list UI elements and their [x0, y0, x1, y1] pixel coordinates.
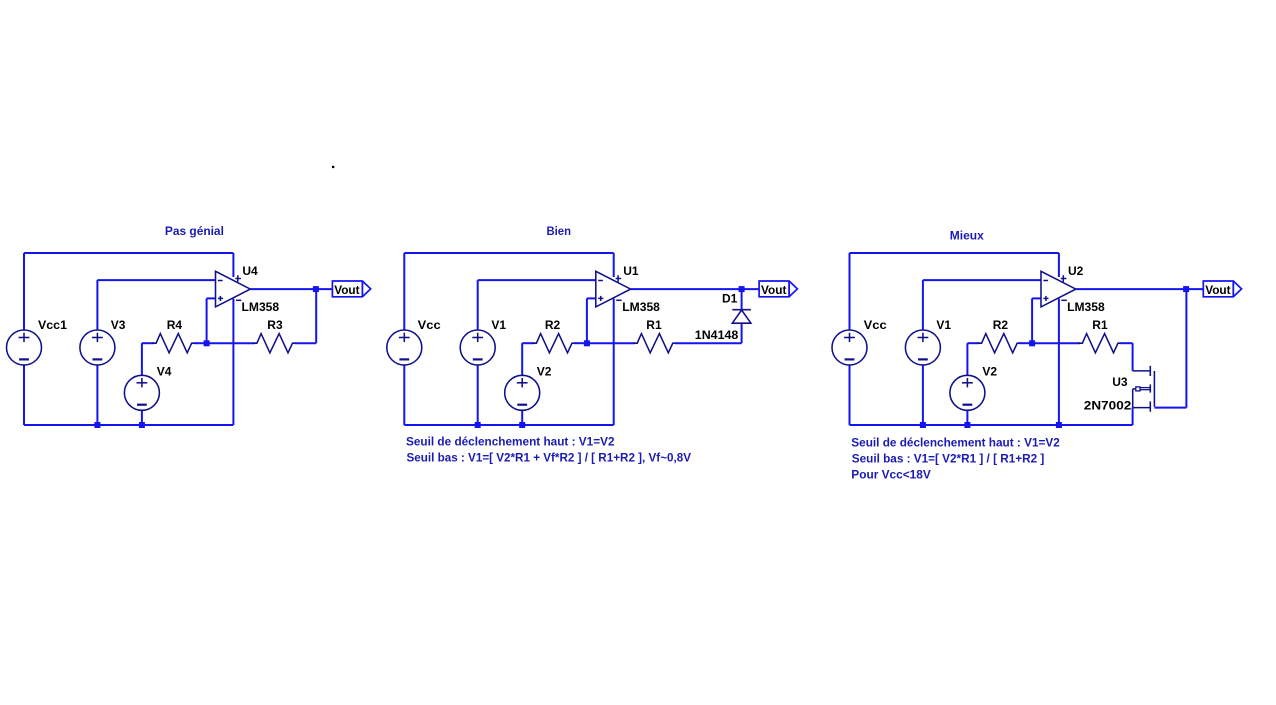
svg-text:V1: V1	[491, 318, 506, 332]
svg-text:R2: R2	[545, 318, 561, 332]
svg-text:R4: R4	[167, 318, 183, 332]
svg-text:1N4148: 1N4148	[695, 328, 739, 342]
svg-text:Bien: Bien	[547, 224, 572, 238]
svg-text:LM358: LM358	[242, 300, 280, 314]
svg-text:Vcc1: Vcc1	[38, 318, 67, 332]
svg-text:D1: D1	[722, 292, 738, 306]
svg-text:Seuil de déclenchement haut :: Seuil de déclenchement haut : V1=V2	[851, 436, 1060, 450]
svg-text:V1: V1	[936, 318, 951, 332]
svg-text:Seuil bas : V1=[ V2*R1 + Vf*R2: Seuil bas : V1=[ V2*R1 + Vf*R2 ] / [ R1+…	[407, 450, 692, 464]
svg-text:R1: R1	[1092, 318, 1108, 332]
svg-text:U3: U3	[1112, 375, 1128, 389]
svg-text:R2: R2	[993, 318, 1009, 332]
svg-text:Vout: Vout	[334, 283, 359, 297]
svg-text:Vcc: Vcc	[864, 318, 887, 332]
svg-text:Vout: Vout	[1205, 283, 1230, 297]
svg-text:V2: V2	[982, 364, 997, 378]
svg-text:U2: U2	[1068, 264, 1084, 278]
svg-text:Seuil bas : V1=[ V2*R1 ] / [ R: Seuil bas : V1=[ V2*R1 ] / [ R1+R2 ]	[852, 452, 1045, 466]
svg-text:Pour Vcc<18V: Pour Vcc<18V	[851, 468, 931, 482]
svg-text:V3: V3	[111, 318, 126, 332]
svg-text:U4: U4	[242, 264, 258, 278]
svg-text:U1: U1	[623, 264, 639, 278]
svg-text:R3: R3	[267, 318, 283, 332]
svg-text:Vout: Vout	[761, 283, 786, 297]
svg-text:2N7002: 2N7002	[1084, 399, 1132, 413]
svg-text:R1: R1	[646, 318, 662, 332]
svg-text:LM358: LM358	[622, 300, 660, 314]
svg-text:V4: V4	[157, 364, 172, 378]
svg-text:V2: V2	[537, 364, 552, 378]
svg-text:LM358: LM358	[1067, 300, 1105, 314]
svg-text:Seuil de déclenchement haut :: Seuil de déclenchement haut : V1=V2	[406, 434, 615, 448]
svg-text:Pas génial: Pas génial	[165, 224, 224, 238]
svg-text:Mieux: Mieux	[950, 229, 984, 243]
svg-text:Vcc: Vcc	[418, 318, 441, 332]
